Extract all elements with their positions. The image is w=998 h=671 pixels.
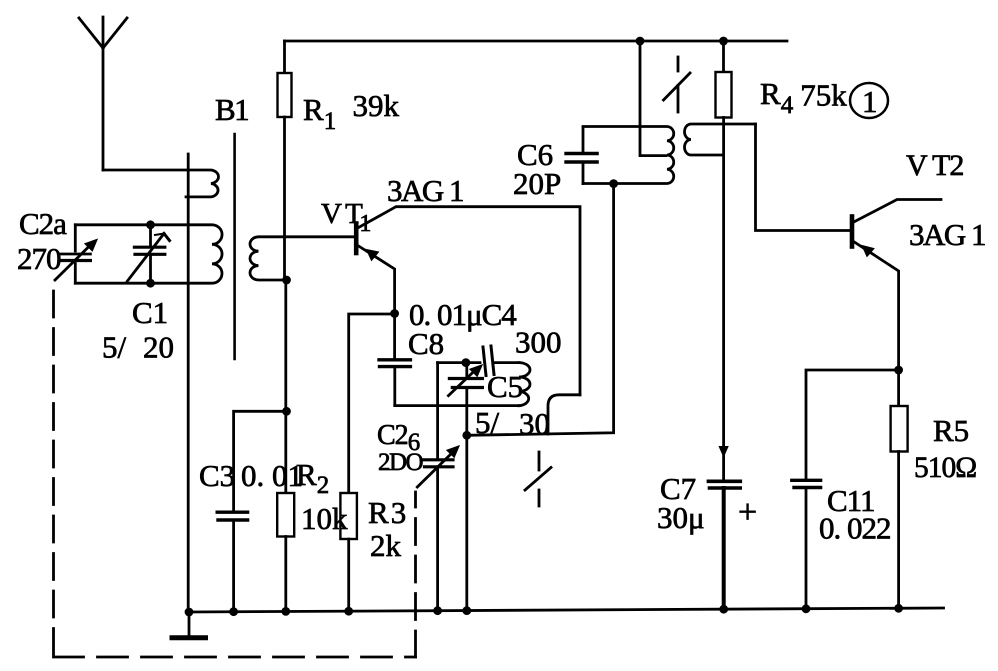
- svg-text:0. 022: 0. 022: [819, 511, 891, 546]
- svg-text:30: 30: [519, 406, 550, 441]
- svg-text:39k: 39k: [353, 88, 400, 123]
- wire R4 down to C7 node: [722, 118, 725, 481]
- svg-text:R475k: R475k: [760, 76, 847, 119]
- svg-text:300: 300: [515, 325, 562, 360]
- node C3 on rail: [229, 607, 238, 616]
- node C7 on rail: [719, 605, 728, 614]
- svg-text:V T1: V T1: [321, 198, 370, 237]
- transistor VT1 collector: [357, 207, 580, 395]
- node R2 on rail: [281, 607, 290, 616]
- svg-text:R5: R5: [933, 413, 969, 448]
- resistor R3 2k: [340, 493, 357, 611]
- node L3 bottom to bias divider: [282, 276, 291, 285]
- node C11 on rail: [802, 604, 811, 613]
- resistor R4 75k: [716, 41, 732, 118]
- svg-text:2DO: 2DO: [378, 449, 424, 476]
- svg-text:R3: R3: [368, 495, 406, 530]
- svg-text:270: 270: [17, 241, 61, 276]
- svg-text:C1: C1: [132, 295, 168, 330]
- resistor R2 10k: [277, 493, 294, 611]
- capacitor C2a variable: [55, 225, 97, 283]
- svg-text:R1: R1: [303, 92, 336, 135]
- capacitor C3 0.01: [217, 512, 247, 611]
- wire emitter to R3: [349, 314, 395, 493]
- capacitor C2b variable gang: [417, 363, 459, 611]
- capacitor C1 trimmer: [127, 225, 169, 283]
- inductor L2 tank winding of B1: [75, 225, 222, 283]
- wire C3 top connection: [234, 411, 287, 510]
- wire top power rail: [285, 40, 788, 43]
- inductor L1 antenna coupling winding of B1: [103, 170, 218, 197]
- emitter arrow VT2: [862, 246, 874, 257]
- node rail left end: [185, 608, 194, 617]
- node R4 top on rail: [719, 37, 728, 46]
- svg-text:3AG 1: 3AG 1: [387, 173, 463, 208]
- wire center tap from rail: [640, 41, 666, 156]
- transistor VT1 emitter: [357, 245, 395, 314]
- inductor L5 IF tank winding: [583, 127, 674, 184]
- capacitor C8 0.01u: [379, 314, 410, 406]
- svg-text:C5: C5: [487, 369, 523, 404]
- svg-text:C2a: C2a: [19, 206, 67, 241]
- terminal circle 1: [850, 83, 888, 118]
- svg-text:5/: 5/: [102, 330, 127, 365]
- dashed gang link C2a-C2b: [54, 291, 416, 657]
- transistor VT2 collector: [853, 200, 941, 223]
- capacitor C11 0.022: [792, 480, 821, 609]
- wire C8 bottom to oscillator coil bottom: [395, 404, 519, 407]
- wire collector link to IF tank bottom: [467, 184, 614, 435]
- wire VT2 base from winding: [756, 124, 851, 231]
- svg-text:+: +: [738, 494, 757, 531]
- node R5 on rail: [894, 604, 903, 613]
- IF transformer tank: capacitor C6 20P: [566, 128, 597, 184]
- svg-text:20: 20: [143, 330, 174, 365]
- svg-text:0. 01: 0. 01: [241, 458, 303, 493]
- svg-text:20P: 20P: [513, 166, 561, 201]
- resistor R1 39k: [278, 41, 292, 280]
- wire C11 top: [806, 370, 899, 478]
- arrow on C7 feed wire: [719, 447, 728, 457]
- inductor L3 secondary winding of B1: [250, 237, 354, 280]
- node R3 on rail: [344, 607, 353, 616]
- node C5 line to collector link: [462, 431, 471, 440]
- svg-text:510Ω: 510Ω: [914, 452, 976, 484]
- resistor R5 510ohm: [891, 406, 908, 608]
- wire bias node down to R2: [284, 280, 287, 493]
- transistor VT2 base bar: [850, 217, 855, 247]
- capacitor C4 300: [483, 346, 519, 376]
- node emitter to C11: [894, 366, 903, 375]
- svg-text:1: 1: [862, 84, 878, 119]
- node C5 on rail: [462, 606, 471, 615]
- node bottom of C1: [146, 279, 155, 288]
- node rail tap: [636, 37, 645, 46]
- svg-text:30μ: 30μ: [657, 500, 705, 535]
- wire collector jog to oscillator line: [548, 395, 580, 434]
- svg-text:C8: C8: [408, 326, 444, 361]
- capacitor C7 30u electrolytic: [708, 481, 740, 609]
- wire oscillator tank top edge: [438, 361, 480, 364]
- inductor L4 oscillator coil: [519, 363, 530, 406]
- svg-text:C3: C3: [199, 458, 235, 493]
- node IF tank bottom: [609, 179, 618, 188]
- capacitor C5 trimmer 5/30: [448, 363, 482, 611]
- node VT1 emitter junction: [390, 309, 399, 318]
- transistor VT2 emitter: [853, 241, 899, 406]
- wire bottom common rail: [189, 608, 944, 612]
- transformer B1 core: [233, 134, 236, 359]
- node C3/R2 junction: [282, 407, 291, 416]
- node C2b on rail: [433, 606, 442, 615]
- node C5 tap on tank top: [462, 358, 471, 367]
- adjustable core mark for oscillator coil: [525, 452, 551, 506]
- adjustable core mark for IF transformer: [664, 57, 691, 112]
- inductor L6 oscillator feedback winding: [685, 124, 756, 155]
- svg-text:5/: 5/: [475, 405, 500, 440]
- antenna: [79, 17, 127, 170]
- ground: [172, 612, 206, 638]
- svg-text:V T2: V T2: [906, 149, 963, 182]
- transistor VT1 base bar: [354, 224, 359, 254]
- svg-text:B1: B1: [215, 92, 248, 127]
- emitter arrow VT1: [367, 250, 379, 261]
- svg-text:10k: 10k: [301, 501, 348, 536]
- wire B1 primary spine to ground: [187, 154, 190, 612]
- node top of C1: [146, 220, 155, 229]
- svg-text:3AG 1: 3AG 1: [909, 217, 985, 252]
- svg-text:2k: 2k: [370, 528, 402, 563]
